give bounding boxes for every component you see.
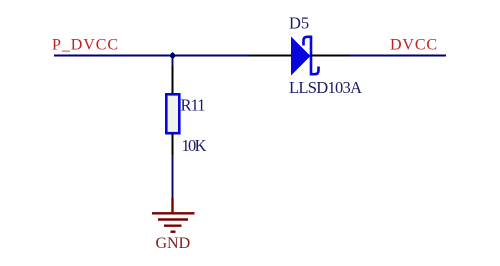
- svg-text:DVCC: DVCC: [390, 37, 437, 54]
- diode D5 body (Schottky): [291, 37, 319, 76]
- resistor R11 body: [166, 94, 179, 133]
- diode D5 cathode pin: [311, 55, 350, 57]
- diode D5 anode pin: [249, 55, 291, 57]
- svg-text:P_DVCC: P_DVCC: [52, 37, 118, 54]
- svg-text:LLSD103A: LLSD103A: [289, 78, 362, 97]
- wire resistor R11 to ground: [172, 155, 174, 198]
- junction node: [169, 52, 176, 59]
- wire junction down: [172, 56, 174, 67]
- ground symbol: [152, 198, 195, 232]
- svg-text:10K: 10K: [182, 136, 207, 155]
- wire diode D5 cathode to DVCC: [350, 55, 446, 57]
- svg-text:GND: GND: [156, 235, 191, 252]
- resistor R11 pin 2: [172, 134, 174, 155]
- svg-text:R11: R11: [181, 96, 206, 115]
- wire P_DVCC to junction: [54, 55, 172, 57]
- svg-text:D5: D5: [289, 14, 309, 33]
- wire junction to diode D5 anode: [172, 55, 250, 57]
- resistor R11 pin 1: [172, 66, 174, 94]
